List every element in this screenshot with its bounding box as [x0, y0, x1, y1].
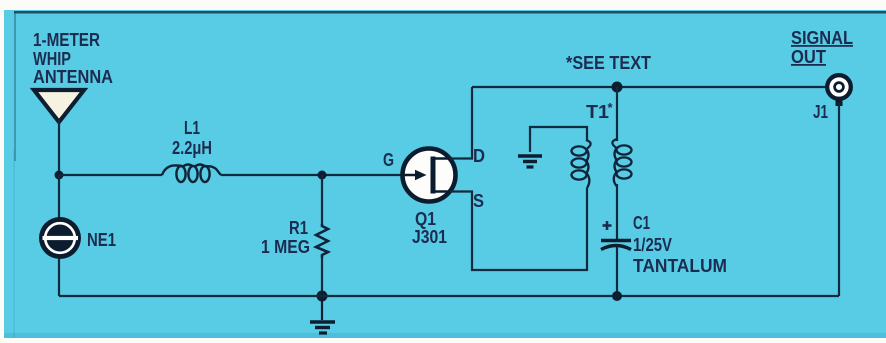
antenna ANT1 (whip antenna symbol) — [34, 90, 84, 122]
ground: below R1 — [310, 296, 335, 333]
connector J1 (output jack) — [827, 75, 851, 106]
svg-text:J301: J301 — [412, 227, 447, 247]
frame top border — [14, 11, 886, 14]
node: bottom rail junction at R1 — [317, 291, 328, 302]
svg-text:*SEE TEXT: *SEE TEXT — [566, 53, 651, 73]
resistor R1 — [316, 224, 328, 258]
svg-text:D: D — [473, 146, 485, 166]
wire: top rail — [472, 86, 828, 88]
svg-text:SIGNAL: SIGNAL — [791, 28, 853, 48]
transformer T1 primary winding — [572, 140, 591, 188]
svg-text:S: S — [473, 191, 484, 211]
label SIGNAL OUT — [791, 28, 853, 67]
svg-text:R1: R1 — [289, 218, 308, 238]
node: antenna junction — [55, 171, 64, 180]
wire: R1 bottom lead — [321, 258, 323, 296]
svg-text:TANTALUM: TANTALUM — [633, 256, 727, 276]
svg-text:Q1: Q1 — [415, 209, 436, 229]
svg-text:J1: J1 — [813, 102, 828, 122]
svg-text:2.2μH: 2.2μH — [172, 138, 212, 158]
svg-text:1 MEG: 1 MEG — [261, 237, 310, 257]
label + (C1 polarity) — [603, 221, 612, 230]
label: 1-METER WHIP ANTENNA — [33, 30, 113, 87]
wire: bottom rail — [59, 295, 839, 297]
inductor L1 — [162, 165, 221, 183]
transformer T1 secondary winding — [612, 139, 631, 186]
svg-text:ANTENNA: ANTENNA — [33, 67, 113, 87]
wire: primary top lead to ground — [530, 127, 587, 152]
wire: R1 top lead — [321, 175, 323, 224]
svg-text:L1: L1 — [184, 118, 200, 138]
ground: T1 primary — [518, 156, 542, 167]
svg-text:C1: C1 — [633, 213, 650, 233]
node: R1 top junction — [318, 171, 327, 180]
transistor Q1 (JFET) — [403, 149, 456, 202]
wire: NE1 top lead — [58, 175, 60, 218]
wire: drain lead to top rail — [450, 87, 472, 159]
wire: secondary top lead — [616, 87, 618, 141]
label T1* — [586, 100, 614, 122]
svg-text:OUT: OUT — [791, 47, 826, 67]
wire: secondary bottom lead to C1 — [616, 184, 618, 239]
frame left border — [14, 11, 16, 161]
wire: J1 down lead to bottom rail — [838, 103, 840, 296]
wire: main horizontal left segment — [59, 174, 162, 176]
svg-text:WHIP: WHIP — [33, 49, 71, 69]
node: bottom rail junction at C1 — [612, 291, 622, 301]
svg-text:G: G — [383, 150, 394, 170]
svg-text:1/25V: 1/25V — [633, 235, 672, 255]
wire: main horizontal right segment — [221, 174, 404, 176]
node: top rail junction at T1 — [612, 82, 623, 93]
capacitor C1 — [601, 241, 631, 250]
wire: C1 bottom lead — [616, 247, 618, 296]
wire: NE1 bottom lead — [58, 258, 60, 296]
wire: source lead down and right — [450, 188, 587, 270]
svg-text:T1: T1 — [586, 102, 609, 122]
svg-text:1-METER: 1-METER — [33, 30, 100, 50]
wire: antenna stem — [58, 120, 60, 175]
neon lamp NE1 — [39, 217, 81, 259]
svg-text:NE1: NE1 — [87, 230, 116, 250]
